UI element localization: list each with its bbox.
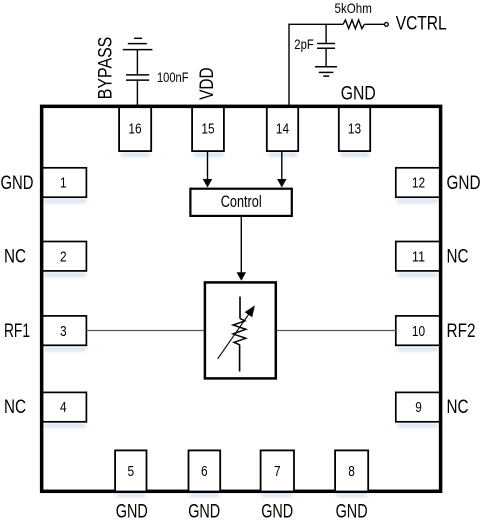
svg-text:3: 3 — [60, 324, 67, 340]
svg-text:GND: GND — [1, 173, 34, 194]
svg-text:BYPASS: BYPASS — [96, 37, 117, 100]
ground symbol below C2 — [315, 67, 337, 76]
attenuator resistor zigzag — [233, 318, 246, 344]
pin 6 box — [189, 450, 221, 491]
svg-text:GND: GND — [336, 502, 368, 521]
control block U2 — [190, 189, 291, 216]
svg-text:NC: NC — [447, 247, 469, 268]
svg-text:8: 8 — [348, 464, 355, 480]
svg-text:VCTRL: VCTRL — [396, 14, 447, 35]
wire pin14 to control — [281, 151, 283, 179]
pin 15 box — [192, 106, 224, 151]
svg-text:NC: NC — [4, 247, 26, 268]
pin 14 box — [267, 106, 298, 151]
pin 13 box — [339, 106, 370, 151]
svg-text:14: 14 — [276, 121, 289, 137]
wire RF1 pin3 to attenuator — [86, 330, 203, 332]
svg-text:RF1: RF1 — [4, 321, 30, 342]
box drop shadows — [44, 153, 438, 497]
capacitor C1 100nF plates — [126, 79, 149, 81]
svg-text:Control: Control — [221, 193, 262, 211]
pin 7 box — [261, 450, 294, 491]
wire control to attenuator — [240, 217, 242, 272]
svg-text:12: 12 — [412, 176, 425, 192]
pin 12 box — [396, 168, 441, 197]
wire pin15 to control — [207, 151, 209, 179]
svg-text:10: 10 — [412, 324, 425, 340]
wire R1 to VCTRL terminal — [364, 23, 384, 25]
pin 10 box — [396, 316, 441, 345]
chip body outline U1 — [42, 106, 441, 491]
attenuator block U3 — [205, 282, 276, 378]
svg-text:7: 7 — [274, 464, 281, 480]
svg-text:100nF: 100nF — [157, 69, 189, 85]
wire node to capacitor C2 — [325, 24, 327, 43]
svg-text:4: 4 — [60, 400, 67, 416]
wire capacitor C1 to ground — [136, 50, 138, 75]
svg-text:VDD: VDD — [197, 67, 218, 100]
pin 5 box — [115, 450, 146, 491]
svg-text:2: 2 — [60, 249, 67, 265]
svg-text:13: 13 — [348, 121, 361, 137]
pin 4 box — [41, 392, 86, 421]
wire attenuator to RF2 pin10 — [277, 330, 396, 332]
pin 3 box — [41, 316, 86, 345]
svg-text:NC: NC — [447, 397, 469, 418]
svg-text:2pF: 2pF — [294, 36, 314, 52]
svg-text:GND: GND — [188, 502, 220, 521]
svg-text:RF2: RF2 — [447, 321, 476, 342]
svg-text:GND: GND — [116, 502, 148, 521]
svg-text:GND: GND — [261, 502, 293, 521]
ground symbol (inverted) above C1 — [123, 38, 153, 49]
resistor R1 5kOhm — [343, 20, 364, 29]
wire C2 to ground — [325, 48, 327, 67]
pin 16 box — [119, 106, 151, 151]
capacitor C2 2pF plates — [317, 43, 335, 45]
pin 8 box — [335, 450, 368, 491]
svg-text:15: 15 — [201, 121, 214, 137]
arrowhead pin14 to control — [277, 179, 287, 188]
pin 11 box — [396, 242, 441, 271]
attenuator resistor top lead — [239, 297, 241, 319]
attenuator variable arrow shaft — [218, 313, 250, 359]
svg-text:9: 9 — [415, 400, 422, 416]
attenuator variable arrowhead — [245, 305, 255, 317]
svg-text:1: 1 — [60, 176, 67, 192]
pin 9 box — [396, 392, 441, 421]
svg-text:5: 5 — [128, 464, 135, 480]
arrowhead pin15 to control — [203, 179, 213, 188]
pin 1 box — [41, 168, 86, 197]
svg-text:GND: GND — [341, 83, 376, 104]
pin 2 box — [41, 242, 86, 271]
attenuator resistor bottom lead — [239, 345, 241, 372]
wire pin16 to capacitor C1 — [136, 80, 138, 106]
svg-text:5kOhm: 5kOhm — [335, 0, 372, 16]
svg-text:11: 11 — [412, 249, 425, 265]
wire pin14 up — [289, 24, 343, 106]
svg-text:16: 16 — [128, 121, 141, 137]
terminal VCTRL — [385, 23, 389, 27]
svg-text:6: 6 — [201, 464, 208, 480]
svg-text:NC: NC — [4, 397, 26, 418]
svg-text:GND: GND — [447, 173, 481, 194]
arrowhead control to attenuator — [237, 272, 247, 281]
